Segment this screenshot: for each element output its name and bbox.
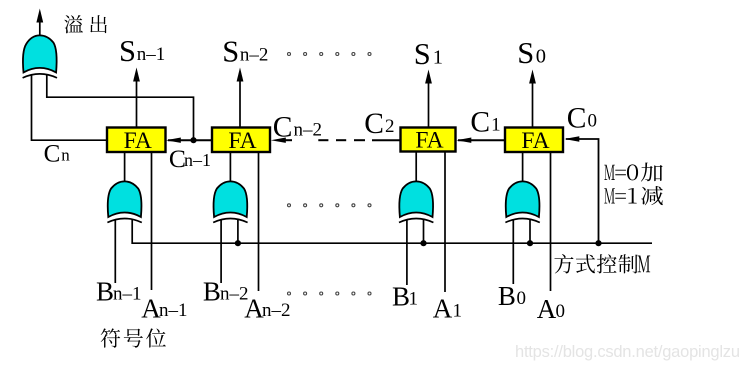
svg-text:B: B xyxy=(96,277,114,307)
dots between xor2 and xor3 xyxy=(288,204,291,207)
svg-text:n–1: n–1 xyxy=(137,44,166,65)
arrow S1 xyxy=(425,70,432,84)
wire A1 input xyxy=(444,152,446,293)
svg-text:n–1: n–1 xyxy=(159,300,188,321)
wire carry Cn-1: FA2 to FA1 xyxy=(168,139,212,141)
arrow into FA2 right xyxy=(271,138,286,143)
svg-text:FA: FA xyxy=(521,128,549,154)
wire xor4 M input xyxy=(529,220,531,243)
wire Sn-1 output xyxy=(136,80,138,128)
arrow Sn-1 xyxy=(133,68,140,82)
wire carry C1: FA4 to FA3 xyxy=(458,139,505,141)
wire An-2 input xyxy=(258,152,260,291)
arrow into FA3 right xyxy=(456,138,471,143)
wire xor4 output to FA4 xyxy=(522,152,524,182)
svg-text:A: A xyxy=(537,294,557,324)
svg-text:n: n xyxy=(61,146,70,165)
xor-gate X2 (bit n-2) xyxy=(214,181,248,217)
svg-text:B: B xyxy=(392,281,410,311)
junction dot C0-M xyxy=(595,240,601,246)
dots between Sn-2 and S1 xyxy=(288,53,291,56)
label 方式控制M (mode control M) xyxy=(554,254,573,273)
svg-text:C: C xyxy=(273,111,293,143)
wire xor2 M input xyxy=(237,220,239,243)
wire Cn-1 tap to overflow-gate right input xyxy=(47,75,194,140)
svg-text:FA: FA xyxy=(124,128,152,154)
svg-text:0: 0 xyxy=(587,111,597,132)
svg-text:C: C xyxy=(470,107,490,139)
svg-text:0: 0 xyxy=(517,288,527,309)
svg-text:S: S xyxy=(119,34,136,68)
wire xor3 M input xyxy=(423,220,425,243)
wire S0 output xyxy=(532,82,534,128)
arrow overflow output xyxy=(36,9,43,23)
svg-text:n–2: n–2 xyxy=(293,119,322,140)
wire carry from FA3 solid part xyxy=(372,139,401,141)
wire mode control M line xyxy=(132,220,652,243)
label 溢出 (overflow) xyxy=(64,15,83,33)
xor-gate X3 (bit 1) xyxy=(399,181,433,217)
wire xor1 output to FA1 xyxy=(124,152,126,182)
label 符号位 (sign bit) xyxy=(101,328,121,347)
wire carry dash 1 xyxy=(318,139,328,141)
wire xor3 output to FA3 xyxy=(415,152,417,183)
svg-text:C: C xyxy=(364,108,384,140)
svg-text:n–1: n–1 xyxy=(113,284,142,305)
wire carry dash 3 xyxy=(354,139,365,141)
wire Bn-2 input xyxy=(220,220,222,283)
label M=1 subtract xyxy=(604,188,615,203)
wire carry dash 2 xyxy=(336,139,346,141)
svg-text:0: 0 xyxy=(556,301,566,322)
arrow into FA1 right xyxy=(166,138,181,143)
svg-text:S: S xyxy=(222,35,239,69)
junction dot xor2-M xyxy=(235,240,241,246)
wire An-1 input xyxy=(151,152,153,290)
arrow into FA4 right xyxy=(564,136,579,141)
label M=0 add xyxy=(604,165,615,180)
svg-text:0: 0 xyxy=(536,46,546,68)
wire xor2 output to FA2 xyxy=(229,152,231,182)
wire C0 from mode line M into FA4 xyxy=(566,139,599,243)
full-adder FA4 (bit 0) xyxy=(505,128,563,153)
svg-text:FA: FA xyxy=(415,128,443,154)
svg-text:1: 1 xyxy=(433,47,443,69)
svg-text:1: 1 xyxy=(453,300,463,321)
svg-text:C: C xyxy=(567,103,587,135)
svg-text:FA: FA xyxy=(228,128,256,154)
wire Sn-2 output xyxy=(239,80,241,128)
wire B1 input xyxy=(406,220,408,285)
arrow Sn-2 xyxy=(237,68,244,82)
svg-text:1: 1 xyxy=(409,288,419,309)
wire B0 input xyxy=(512,220,514,284)
xor-gate X1 (bit n-1) xyxy=(108,181,142,217)
svg-text:C: C xyxy=(44,141,61,168)
wire S1 output xyxy=(428,82,430,128)
wire Bn-1 input xyxy=(114,220,116,283)
junction dot Cn-1 node xyxy=(190,137,196,143)
full-adder FA1 (bit n-1) xyxy=(107,128,166,153)
svg-text:1: 1 xyxy=(491,115,501,136)
arrow S0 xyxy=(529,70,536,84)
svg-text:n–2: n–2 xyxy=(262,300,291,321)
svg-text:B: B xyxy=(498,281,516,311)
junction dot xor4-M xyxy=(527,240,533,246)
svg-text:S: S xyxy=(414,37,431,71)
svg-text:n–1: n–1 xyxy=(184,150,211,170)
wire A0 input xyxy=(550,152,552,291)
wire carry solid part into FA2 xyxy=(284,139,292,141)
svg-text:B: B xyxy=(203,277,221,307)
full-adder FA2 (bit n-2) xyxy=(212,128,270,153)
svg-text:https://blog.csdn.net/gaopingl: https://blog.csdn.net/gaopinglzu xyxy=(515,343,740,361)
svg-text:S: S xyxy=(517,36,534,70)
xor-gate X4 (bit 0) xyxy=(506,181,540,217)
xor-gate overflow detector xyxy=(23,35,57,72)
full-adder FA3 (bit 1) xyxy=(401,128,456,152)
wire Cn: overflow-gate left input to FA1 left xyxy=(32,75,108,140)
dots between An-2 and B1 xyxy=(288,292,291,295)
svg-text:A: A xyxy=(433,293,453,323)
wire overflow-gate output up xyxy=(39,20,41,36)
svg-text:n–2: n–2 xyxy=(240,45,269,66)
svg-text:2: 2 xyxy=(385,116,395,137)
junction dot xor3-M xyxy=(420,240,426,246)
